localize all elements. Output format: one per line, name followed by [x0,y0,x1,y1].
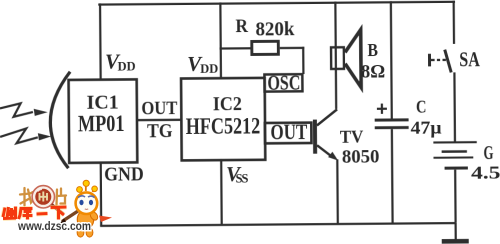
wire resistor to OSC pin [302,47,304,74]
wire battery to ground bus [454,170,457,223]
watermark character pian [57,189,67,206]
wire VSS of IC2 to ground bus [220,159,223,224]
wire top supply bus [98,1,455,6]
OUT pin box of IC2 [265,123,312,144]
OSC pin box of IC2 [264,74,302,91]
svg-text:8Ω: 8Ω [361,61,385,82]
svg-text:SA: SA [459,47,480,71]
svg-text:VDD: VDD [105,49,136,73]
svg-text:OUT: OUT [141,98,177,119]
svg-text:4.5: 4.5 [471,163,500,183]
switch SA blade [445,50,451,73]
capacitor C bottom plate [375,126,409,129]
svg-text:GND: GND [104,164,144,186]
speaker B magnet box [331,47,344,69]
wire switch branch from top bus [453,1,456,44]
wire emitter to ground bus [336,159,339,224]
svg-text:820k: 820k [255,18,295,40]
wire battery ground stub [454,223,456,241]
watermark mascot [60,180,113,237]
svg-text:R: R [235,16,248,37]
svg-text:VDD: VDD [187,52,218,76]
switch SA actuator bar [428,54,435,67]
svg-text:47μ: 47μ [410,118,441,138]
wire VDD drop to IC1 [99,3,102,80]
transistor TV base bar [313,120,317,154]
watermark magnifier [32,186,63,214]
wire OUT-TG between IC1 and IC2 [137,119,182,122]
battery G plate 3 long [433,156,473,158]
svg-text:IC2: IC2 [213,93,242,115]
svg-text:OSC: OSC [267,71,300,95]
wire speaker branch from top bus [334,2,337,109]
IC2 box [181,78,265,161]
sensor lens arc of IC1 [50,72,71,169]
wire capacitor branch from top bus [390,1,393,119]
battery G plate 4 short [445,166,468,169]
wire left lead of resistor R [220,47,251,49]
capacitor C top plate [375,118,409,121]
battery G plate 1 long [433,141,476,143]
watermark text weikuyixia [3,207,67,220]
ground bar terminal [442,239,469,244]
resistor R body [252,41,279,54]
svg-text:TG: TG [147,120,173,142]
wire bottom ground bus [100,222,456,227]
transistor TV collector lead [317,109,337,125]
svg-text:C: C [416,97,427,117]
svg-text:OUT: OUT [270,119,307,144]
svg-text:MP01: MP01 [78,111,125,137]
svg-text:B: B [367,40,378,60]
svg-text:8050: 8050 [342,147,380,168]
switch SA actuator dash 1 [437,59,440,61]
capacitor C plus sign [377,104,387,114]
wire VDD drop to IC2 [219,3,222,78]
wire capacitor to ground bus [391,129,394,223]
wire right lead of resistor R [280,47,305,49]
svg-text:TV: TV [340,126,364,146]
wire GND of IC1 to ground bus [100,162,103,226]
IC1 box [69,79,138,163]
battery G plate 2 short [442,150,467,153]
infrared ray arrow 2 [0,128,51,143]
svg-text:VSS: VSS [226,162,249,186]
transistor TV emitter lead with arrow [317,145,338,161]
svg-text:www.dzsc.com: www.dzsc.com [17,219,91,233]
infrared ray arrow 1 [0,103,48,117]
watermark character zhao [20,188,34,206]
svg-text:G: G [483,143,493,164]
svg-text:HFC5212: HFC5212 [186,113,261,139]
wire switch to battery [453,72,456,141]
speaker B cone [345,30,361,88]
switch SA actuator dash 2 [443,59,446,61]
